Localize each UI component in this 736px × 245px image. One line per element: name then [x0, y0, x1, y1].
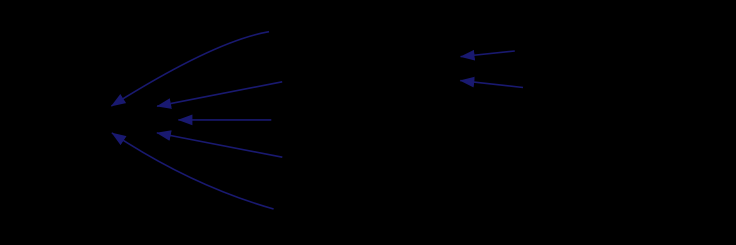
wire arrow right upper: [461, 51, 515, 57]
wire arrow bottom arc: [112, 133, 274, 209]
wire arrow right lower: [460, 81, 523, 88]
wire arrow lower straight: [157, 133, 282, 157]
wire arrow top arc: [111, 32, 269, 106]
wire arrow upper straight: [157, 82, 282, 106]
wire arrow middle horizontal: [178, 119, 271, 121]
